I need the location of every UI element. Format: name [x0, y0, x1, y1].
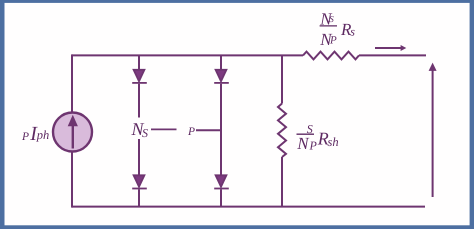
wire left branch upper: [71, 54, 73, 112]
svg-text:P: P: [21, 131, 29, 143]
wire diode branch 1: [138, 55, 140, 206]
svg-text:P: P: [309, 138, 318, 152]
svg-text:P: P: [187, 126, 195, 138]
wire shunt branch lower: [281, 157, 283, 207]
resistor Rs zigzag: [303, 52, 359, 60]
border frame right: [470, 0, 474, 229]
wire leader after Ns: [151, 128, 177, 130]
svg-text:ph: ph: [36, 128, 50, 142]
border frame left: [0, 0, 5, 229]
current source Iph circle: [53, 113, 92, 152]
resistor Rsh zigzag: [278, 104, 286, 158]
label Ns/Np Rs fraction: [319, 9, 355, 49]
wire leader after P: [196, 129, 221, 131]
border frame bottom: [0, 225, 474, 229]
label S/Np Rsh fraction: [296, 122, 338, 153]
diode D1 top: [132, 70, 147, 83]
wire left branch lower: [71, 152, 73, 208]
svg-text:P: P: [329, 35, 337, 47]
current direction arrow right: [375, 45, 406, 51]
output arrow up: [429, 63, 437, 197]
svg-text:sh: sh: [328, 135, 339, 149]
wire diode branch 2: [220, 55, 222, 206]
wire shunt branch upper: [281, 55, 283, 103]
diode D2 top: [214, 70, 229, 83]
diode D2 bottom: [214, 175, 229, 188]
svg-text:S: S: [142, 126, 148, 140]
border frame top: [0, 0, 474, 3]
svg-text:s: s: [350, 24, 355, 38]
wire bottom rail: [72, 206, 425, 208]
wire top rail right of Rs: [359, 54, 426, 56]
svg-text:N: N: [296, 134, 310, 153]
current source arrow: [68, 115, 78, 149]
svg-text:S: S: [329, 14, 334, 24]
diode D1 bottom: [132, 175, 147, 188]
wire top rail left of Rs: [72, 54, 303, 56]
